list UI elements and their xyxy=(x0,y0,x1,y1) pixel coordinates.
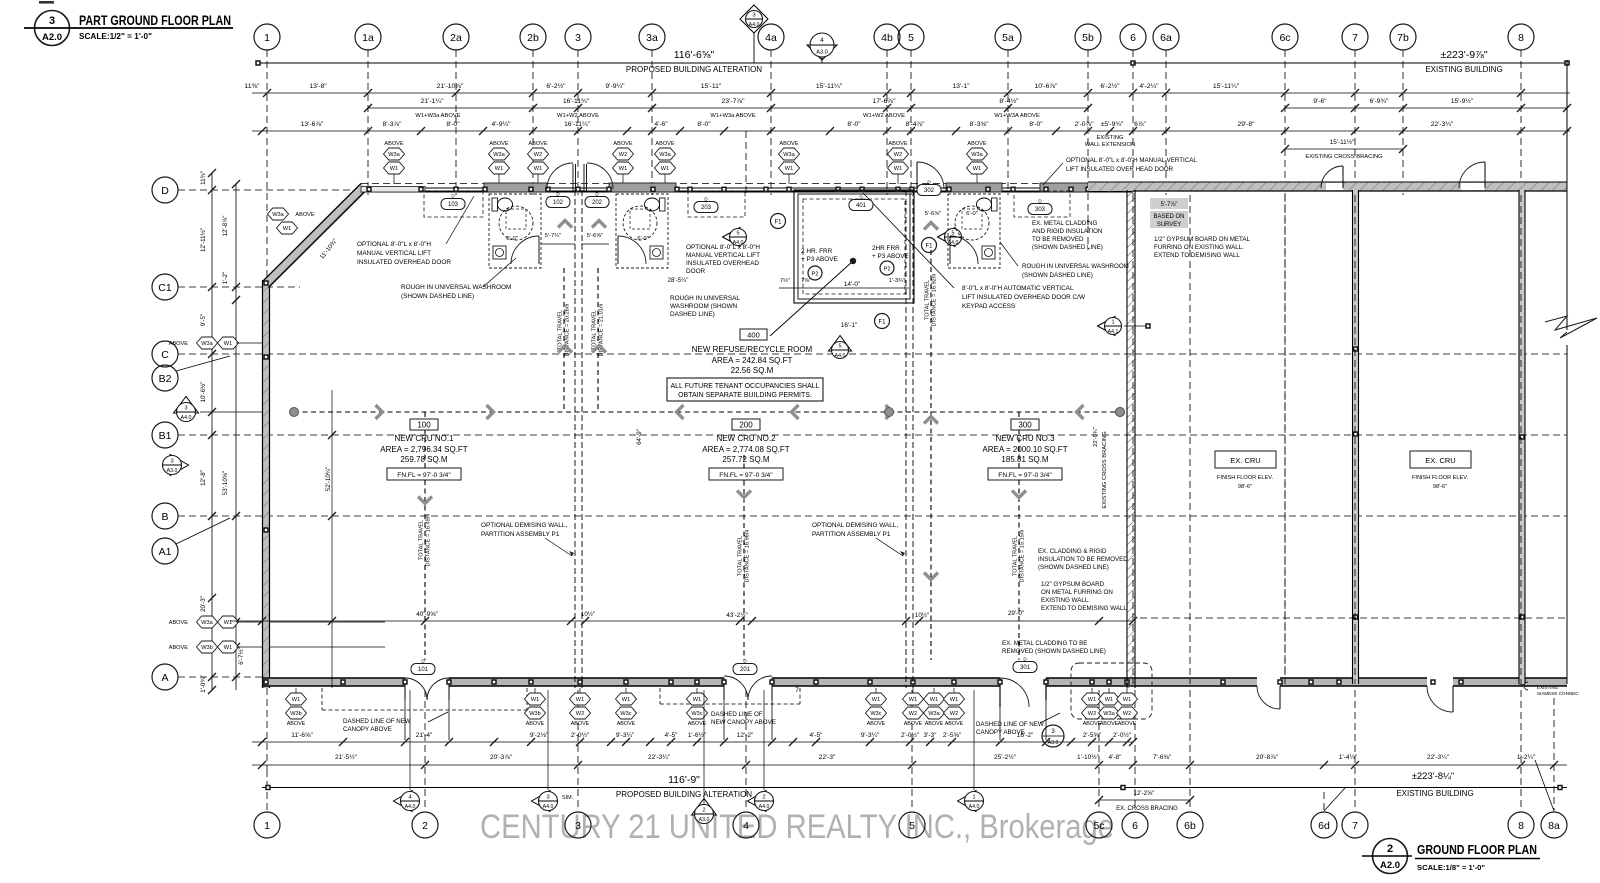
top wall window unit xyxy=(946,183,1002,192)
svg-text:FURRING ON EXISTING WALL.: FURRING ON EXISTING WALL. xyxy=(1154,244,1244,251)
svg-text:12'-2⅝": 12'-2⅝" xyxy=(1134,790,1155,797)
svg-text:W3a: W3a xyxy=(659,152,671,158)
svg-text:116'-9": 116'-9" xyxy=(668,774,700,786)
mullion xyxy=(575,187,581,193)
bottom mullion xyxy=(1124,679,1130,685)
ex cru label 1 xyxy=(1215,451,1276,468)
bottom mullion xyxy=(668,679,674,685)
svg-text:A3.0: A3.0 xyxy=(167,468,178,474)
grid bubble 6 bottom xyxy=(1122,812,1148,838)
refuse room leader xyxy=(770,261,853,336)
svg-text:W1: W1 xyxy=(224,645,232,651)
top wall existing openings xyxy=(1326,183,1343,190)
svg-text:+ P3 ABOVE: + P3 ABOVE xyxy=(872,253,909,260)
svg-text:REMOVED (SHOWN DASHED LINE): REMOVED (SHOWN DASHED LINE) xyxy=(1002,648,1106,655)
svg-text:F1: F1 xyxy=(774,220,782,226)
travel line x=564 xyxy=(563,268,565,412)
svg-text:OPTIONAL 8'-0"L x 8'-0"H: OPTIONAL 8'-0"L x 8'-0"H xyxy=(357,241,431,248)
svg-text:12'-11½": 12'-11½" xyxy=(200,228,207,252)
svg-text:1/2" GYPSUM BOARD: 1/2" GYPSUM BOARD xyxy=(1041,581,1105,588)
svg-text:FN.FL = 97'-0 3/4": FN.FL = 97'-0 3/4" xyxy=(719,472,773,479)
top wall chamfer stub xyxy=(361,187,425,193)
svg-text:5: 5 xyxy=(736,231,739,237)
svg-text:AREA = 2,774.08 SQ.FT: AREA = 2,774.08 SQ.FT xyxy=(702,445,789,454)
svg-text:ABOVE: ABOVE xyxy=(1118,721,1137,727)
svg-text:EXISTING WALL.: EXISTING WALL. xyxy=(1041,597,1090,604)
svg-text:W1: W1 xyxy=(872,697,880,703)
travel chevron v xyxy=(558,346,572,353)
svg-text:3: 3 xyxy=(575,820,581,832)
svg-text:ABOVE: ABOVE xyxy=(528,141,548,147)
section marker 1/A4.1 xyxy=(1098,317,1116,336)
svg-text:7: 7 xyxy=(1352,32,1358,44)
svg-text:B: B xyxy=(161,511,168,523)
section marker 5/A4.0 a xyxy=(723,228,741,247)
svg-text:2: 2 xyxy=(702,808,705,814)
grid line 1 xyxy=(266,50,268,770)
svg-text:EXISTING CROSS BRACING: EXISTING CROSS BRACING xyxy=(1305,154,1383,160)
svg-text:4'-2¼": 4'-2¼" xyxy=(1139,83,1159,90)
svg-text:W1: W1 xyxy=(619,166,627,172)
grid line 1a xyxy=(367,50,369,195)
mullion xyxy=(650,187,656,193)
top wall window unit xyxy=(484,183,547,192)
svg-text:2'-0⅞": 2'-0⅞" xyxy=(1075,121,1095,128)
svg-text:W1: W1 xyxy=(894,166,902,172)
svg-text:29'-8": 29'-8" xyxy=(1237,121,1255,128)
svg-text:WALL EXTENSION: WALL EXTENSION xyxy=(1085,142,1135,148)
svg-text:AREA = 2,796.34 SQ.FT: AREA = 2,796.34 SQ.FT xyxy=(380,445,467,454)
mullion xyxy=(418,187,424,193)
svg-text:64'-9": 64'-9" xyxy=(636,429,643,445)
svg-text:102: 102 xyxy=(553,200,564,206)
svg-text:5: 5 xyxy=(909,820,915,832)
svg-text:W2: W2 xyxy=(1088,711,1096,717)
svg-text:W3a: W3a xyxy=(201,341,213,347)
grid bubble A left xyxy=(152,664,178,690)
svg-text:ROUGH IN UNIVERSAL WASHROOM: ROUGH IN UNIVERSAL WASHROOM xyxy=(401,284,511,291)
svg-text:8'-3⅝": 8'-3⅝" xyxy=(970,121,990,128)
svg-text:A2.0: A2.0 xyxy=(42,32,62,43)
circle marker 3/A3.0 xyxy=(1042,725,1064,747)
bottom mullion xyxy=(1043,679,1049,685)
entry door 302 swing xyxy=(916,162,918,189)
grid line C1 xyxy=(178,286,300,288)
chamfer wall xyxy=(263,184,368,288)
grid bubble 8 bottom xyxy=(1508,812,1534,838)
grid line B1 xyxy=(178,434,1567,436)
svg-text:6'-7½": 6'-7½" xyxy=(238,647,245,664)
svg-text:4'-8": 4'-8" xyxy=(1109,754,1123,761)
travel chevron xyxy=(487,405,494,419)
gray dot hatched wall xyxy=(1116,408,1125,417)
svg-text:2'-5⅝": 2'-5⅝" xyxy=(943,732,962,739)
grid line 4a xyxy=(770,50,772,195)
svg-text:NEW CANOPY ABOVE: NEW CANOPY ABOVE xyxy=(711,719,776,726)
svg-text:W1+W3a ABOVE: W1+W3a ABOVE xyxy=(710,113,755,119)
washroom unit2 xyxy=(616,194,668,268)
svg-text:22'-0¾": 22'-0¾" xyxy=(1093,427,1099,447)
svg-text:6'-0": 6'-0" xyxy=(637,236,649,242)
svg-text:3a: 3a xyxy=(646,32,658,44)
grid line 7 bottom xyxy=(1354,690,1356,811)
svg-text:W1+W3a ABOVE: W1+W3a ABOVE xyxy=(415,113,460,119)
svg-text:SURVEY: SURVEY xyxy=(1157,222,1182,228)
svg-text:OPTIONAL 8'-0"L x 8'-0"H: OPTIONAL 8'-0"L x 8'-0"H xyxy=(686,244,760,251)
svg-text:13'-1": 13'-1" xyxy=(952,83,970,90)
title block part ground floor plan xyxy=(35,11,70,46)
grid bubble 4b top xyxy=(874,24,900,50)
svg-text:52'-10¼": 52'-10¼" xyxy=(325,467,332,491)
svg-text:W3a: W3a xyxy=(388,152,400,158)
travel chevron xyxy=(792,405,799,419)
svg-text:B1: B1 xyxy=(159,430,172,442)
travel line x=744 xyxy=(743,455,745,660)
overhead door rough opening xyxy=(1014,191,1070,217)
grid bubble B left xyxy=(152,503,178,529)
bottom mullion xyxy=(997,679,1003,685)
mullion xyxy=(763,187,769,193)
leader 6d xyxy=(1324,788,1345,811)
travel chevron v xyxy=(592,346,606,353)
dimension row 2 xyxy=(252,92,1570,94)
dim row overall left xyxy=(258,62,1133,64)
mullion xyxy=(946,187,952,193)
svg-text:21'-10⅞": 21'-10⅞" xyxy=(437,83,464,90)
svg-text:401: 401 xyxy=(856,203,867,209)
svg-text:ABOVE: ABOVE xyxy=(904,721,923,727)
svg-text:9'-9¼": 9'-9¼" xyxy=(605,83,625,90)
svg-text:ABOVE: ABOVE xyxy=(779,141,799,147)
bottom wall xyxy=(263,678,1567,686)
svg-text:A4.0: A4.0 xyxy=(181,415,192,421)
svg-text:7'-6⅝": 7'-6⅝" xyxy=(1153,754,1172,761)
svg-text:5: 5 xyxy=(838,344,841,350)
svg-text:W1: W1 xyxy=(950,697,958,703)
dashed vertical 6c interior xyxy=(1284,195,1286,684)
grid line 8a bottom xyxy=(1553,698,1555,811)
svg-text:ABOVE: ABOVE xyxy=(925,721,944,727)
svg-text:W1: W1 xyxy=(576,697,584,703)
washroom unit3 xyxy=(948,194,1000,268)
svg-text:ON METAL FURRING ON: ON METAL FURRING ON xyxy=(1041,589,1113,596)
bottom dimension row B xyxy=(252,764,1567,766)
svg-text:NEW REFUSE/RECYCLE ROOM: NEW REFUSE/RECYCLE ROOM xyxy=(692,345,813,354)
bottom wall door opening xyxy=(724,677,772,687)
svg-text:3: 3 xyxy=(184,406,187,412)
svg-text:W3a: W3a xyxy=(783,152,795,158)
svg-text:21'-5½": 21'-5½" xyxy=(335,753,358,761)
svg-text:4: 4 xyxy=(820,37,824,44)
svg-text:101: 101 xyxy=(418,667,429,673)
mullion xyxy=(674,187,680,193)
travel chevron xyxy=(886,405,893,419)
svg-text:EX. CRU: EX. CRU xyxy=(1425,456,1455,465)
svg-text:12'-8": 12'-8" xyxy=(200,470,207,486)
svg-text:A4.0: A4.0 xyxy=(405,804,416,810)
svg-text:15'-9½": 15'-9½" xyxy=(1451,97,1474,105)
grid line 2a xyxy=(455,50,457,195)
svg-text:W1+W2 ABOVE: W1+W2 ABOVE xyxy=(557,113,599,119)
door jamb extension xyxy=(723,688,725,740)
grid bubble D left xyxy=(152,177,178,203)
leader B2 xyxy=(176,356,230,371)
svg-text:ROUGH IN UNIVERSAL WASHROOM: ROUGH IN UNIVERSAL WASHROOM xyxy=(1022,263,1129,270)
double door xyxy=(404,678,406,700)
optional demising wall xyxy=(574,190,576,688)
svg-text:INSULATION TO BE REMOVED: INSULATION TO BE REMOVED xyxy=(1038,556,1128,563)
section marker 3/A4.0 left xyxy=(174,397,199,414)
svg-text:100: 100 xyxy=(417,421,431,430)
svg-text:4'-6": 4'-6" xyxy=(654,121,668,128)
svg-text:W3a: W3a xyxy=(971,152,983,158)
svg-text:4: 4 xyxy=(743,820,749,832)
existing wall grid7 xyxy=(1353,190,1359,684)
svg-text:DASHED LINE OF NEW: DASHED LINE OF NEW xyxy=(343,718,411,725)
travel line x=598 xyxy=(597,268,599,412)
mullion xyxy=(985,187,991,193)
mullion xyxy=(895,187,901,193)
svg-text:W1: W1 xyxy=(785,166,793,172)
svg-text:9'-3¼": 9'-3¼" xyxy=(861,732,880,739)
svg-text:11⅜": 11⅜" xyxy=(200,171,207,185)
svg-text:PART GROUND FLOOR PLAN: PART GROUND FLOOR PLAN xyxy=(79,12,231,28)
svg-text:12'-8⅞": 12'-8⅞" xyxy=(222,216,229,237)
svg-text:W3a: W3a xyxy=(272,212,284,218)
svg-text:SIAMESE CONNEC: SIAMESE CONNEC xyxy=(1537,691,1579,696)
svg-text:W3c: W3c xyxy=(620,711,631,717)
svg-text:FN.FL = 97'-0 3/4": FN.FL = 97'-0 3/4" xyxy=(998,472,1052,479)
svg-text:EX. METAL CLADDING TO BE: EX. METAL CLADDING TO BE xyxy=(1002,640,1087,647)
svg-text:W3b: W3b xyxy=(290,711,302,717)
svg-text:9'-6": 9'-6" xyxy=(1313,98,1327,105)
future tenant note box xyxy=(667,378,823,401)
svg-text:20'-3": 20'-3" xyxy=(200,596,207,612)
svg-text:DISTANCE = 16.92m: DISTANCE = 16.92m xyxy=(932,273,938,326)
svg-text:3: 3 xyxy=(49,15,55,27)
grid dash through wall 6 xyxy=(1132,195,1134,684)
svg-text:5a: 5a xyxy=(1002,32,1014,44)
existing door swing xyxy=(1452,686,1454,712)
existing hatched wall grid6 xyxy=(1127,190,1135,688)
bottom mullion xyxy=(721,679,727,685)
bottom mullion xyxy=(1308,679,1314,685)
grid line 8 xyxy=(1520,50,1522,188)
svg-text:29'-0": 29'-0" xyxy=(1008,610,1024,617)
grid bubble B1 left xyxy=(152,422,178,448)
svg-text:8'-0"L x 8'-0"H AUTOMATIC VERT: 8'-0"L x 8'-0"H AUTOMATIC VERTICAL xyxy=(962,285,1074,292)
svg-text:A: A xyxy=(161,672,168,684)
svg-text:A4.1: A4.1 xyxy=(1108,329,1119,335)
travel chevron xyxy=(677,405,684,419)
svg-text:±223'-8¼": ±223'-8¼" xyxy=(1412,771,1455,782)
svg-text:6d: 6d xyxy=(1318,820,1330,832)
svg-text:PARTITION ASSEMBLY P1: PARTITION ASSEMBLY P1 xyxy=(812,531,891,538)
svg-text:W3b: W3b xyxy=(201,645,213,651)
svg-text:2 HR. FRR: 2 HR. FRR xyxy=(801,248,833,255)
svg-text:3: 3 xyxy=(546,795,549,801)
svg-text:16'-1": 16'-1" xyxy=(841,322,857,329)
bottom mullion xyxy=(694,679,700,685)
svg-text:AREA = 2000.10 SQ.FT: AREA = 2000.10 SQ.FT xyxy=(982,445,1067,454)
svg-text:6: 6 xyxy=(1132,820,1138,832)
svg-text:300: 300 xyxy=(1018,421,1032,430)
svg-text:1'-0¾": 1'-0¾" xyxy=(200,675,207,692)
svg-text:185.81 SQ.M: 185.81 SQ.M xyxy=(1001,455,1048,464)
svg-text:A4.0: A4.0 xyxy=(543,804,554,810)
svg-text:A2.0: A2.0 xyxy=(1380,860,1400,871)
bottom mullion xyxy=(1458,679,1464,685)
svg-text:(SHOWN DASHED LINE): (SHOWN DASHED LINE) xyxy=(401,293,474,300)
svg-text:14'-0": 14'-0" xyxy=(844,281,860,288)
grid bubble 2a top xyxy=(443,24,469,50)
window tag stack bottom x=1109 xyxy=(1108,688,1110,694)
svg-text:DASHED LINE): DASHED LINE) xyxy=(670,311,715,318)
travel chevron v xyxy=(924,223,938,230)
top wall window unit xyxy=(609,183,676,192)
grid line 6d bottom xyxy=(1323,792,1325,811)
mullion xyxy=(606,187,612,193)
washroom unit1 xyxy=(489,194,541,268)
grid bubble 7 top xyxy=(1342,24,1368,50)
window tag stack bottom x=697 xyxy=(696,688,698,694)
svg-text:6c: 6c xyxy=(1279,32,1290,44)
mullion xyxy=(786,187,792,193)
grid line 3 xyxy=(577,50,579,195)
watermark century 21 xyxy=(450,799,1130,849)
leader A1 xyxy=(176,518,230,544)
dimension row 3 xyxy=(368,107,1088,109)
grid bubble 4a top xyxy=(758,24,784,50)
svg-text:A3.0: A3.0 xyxy=(816,50,828,56)
refuse room label xyxy=(740,329,767,340)
svg-text:SIM.: SIM. xyxy=(562,795,573,801)
title block ground floor plan xyxy=(1373,839,1408,874)
svg-text:5'-6⅝": 5'-6⅝" xyxy=(925,211,941,217)
bottom mullion xyxy=(910,679,916,685)
bottom cross bracing dim xyxy=(1099,799,1190,801)
bottom mullion xyxy=(813,679,819,685)
svg-text:P2: P2 xyxy=(883,267,890,273)
svg-text:PROPOSED BUILDING ALTERATION: PROPOSED BUILDING ALTERATION xyxy=(626,65,762,74)
mullion xyxy=(545,187,551,193)
svg-text:2'-0½": 2'-0½" xyxy=(571,731,590,739)
svg-text:21'-1¼": 21'-1¼" xyxy=(421,98,445,105)
dimension row 3 right xyxy=(1285,107,1567,109)
section marker 5/A4.0 c xyxy=(829,336,852,352)
svg-text:4'-9¼": 4'-9¼" xyxy=(492,121,512,128)
svg-text:W1: W1 xyxy=(973,166,981,172)
svg-text:11⅜": 11⅜" xyxy=(244,83,260,90)
svg-text:TOTAL TRAVEL: TOTAL TRAVEL xyxy=(1013,536,1019,576)
grid bubble 5c bottom xyxy=(1086,812,1112,838)
bottom wall door opening xyxy=(1257,677,1280,687)
dim row overall right xyxy=(1133,62,1567,64)
bottom mullion xyxy=(577,679,583,685)
svg-text:C1: C1 xyxy=(158,282,172,294)
svg-text:13'-8": 13'-8" xyxy=(309,83,327,90)
svg-text:W3b: W3b xyxy=(529,711,541,717)
svg-text:C: C xyxy=(161,349,169,361)
svg-text:53'-10⅝": 53'-10⅝" xyxy=(222,471,229,495)
mullion xyxy=(528,187,534,193)
travel chevron v xyxy=(924,573,938,580)
refuse room walls xyxy=(794,190,914,303)
grid bubble 5b top xyxy=(1075,24,1101,50)
bottom mullion xyxy=(402,679,408,685)
svg-text:W1: W1 xyxy=(390,166,398,172)
existing wall extension gray xyxy=(1088,182,1133,191)
svg-text:W1: W1 xyxy=(1105,697,1113,703)
grid line 4 bottom xyxy=(745,690,747,811)
tag P2 b xyxy=(880,261,894,275)
svg-text:2: 2 xyxy=(422,820,428,832)
bottom mullion xyxy=(528,679,534,685)
svg-text:DASHED LINE OF: DASHED LINE OF xyxy=(711,711,763,718)
section marker 3/A4.0 bottom xyxy=(532,791,551,812)
mullion xyxy=(366,187,372,193)
grid bubble 5 top xyxy=(898,24,924,50)
svg-text:ABOVE: ABOVE xyxy=(1100,721,1119,727)
svg-text:W3c: W3c xyxy=(870,711,881,717)
bottom mullion xyxy=(340,679,346,685)
svg-text:1: 1 xyxy=(264,820,270,832)
svg-text:±223'-9⅞": ±223'-9⅞" xyxy=(1440,49,1487,61)
svg-text:DASHED LINE OF NEW: DASHED LINE OF NEW xyxy=(976,721,1044,728)
svg-text:15'-11½": 15'-11½" xyxy=(1330,138,1355,146)
travel line x=425 xyxy=(424,412,426,660)
svg-text:98'-6": 98'-6" xyxy=(1238,484,1252,490)
svg-text:22'-3¼": 22'-3¼" xyxy=(1427,754,1450,761)
svg-text:OPTIONAL 8'-0"L x 8'-0"H MANUA: OPTIONAL 8'-0"L x 8'-0"H MANUAL VERTICAL xyxy=(1066,157,1197,164)
dashed vertical 6b xyxy=(1190,194,1567,196)
window tag stack bottom x=913 xyxy=(912,688,914,694)
svg-text:10½": 10½" xyxy=(581,611,595,618)
section marker 2/A3.0 bottom xyxy=(692,799,717,816)
bottom wall door opening xyxy=(1427,677,1453,687)
svg-text:6⅞": 6⅞" xyxy=(1134,121,1146,128)
existing wall grid8 xyxy=(1519,190,1525,684)
svg-text:A3.0: A3.0 xyxy=(699,817,710,823)
travel chevron v xyxy=(1012,491,1026,498)
svg-text:W2: W2 xyxy=(619,152,627,158)
svg-text:A4.0: A4.0 xyxy=(749,22,760,28)
svg-text:6a: 6a xyxy=(1160,32,1172,44)
svg-text:5'-7⅞": 5'-7⅞" xyxy=(1161,202,1178,208)
tag F1 a xyxy=(771,214,786,229)
svg-text:8: 8 xyxy=(1518,32,1524,44)
svg-text:B2: B2 xyxy=(159,373,172,385)
grid line 4 top xyxy=(745,131,747,195)
svg-text:AND RIGID INSULATION: AND RIGID INSULATION xyxy=(1032,228,1102,235)
vestibule door frame xyxy=(572,164,574,191)
svg-text:43'-2½": 43'-2½" xyxy=(726,611,748,619)
svg-text:9'-2⅛": 9'-2⅛" xyxy=(530,732,549,739)
left dim chain 1 xyxy=(211,173,213,690)
svg-text:EXISTING: EXISTING xyxy=(1537,685,1559,690)
travel line x=1019 xyxy=(1018,412,1020,660)
grid bubble 8a bottom xyxy=(1541,812,1567,838)
travel node dot xyxy=(885,408,894,417)
svg-text:2a: 2a xyxy=(450,32,462,44)
left dim chain 2 xyxy=(235,184,237,690)
entry doors top xyxy=(547,163,573,189)
svg-text:ABOVE: ABOVE xyxy=(967,141,987,147)
svg-text:6'-9¾": 6'-9¾" xyxy=(1370,98,1389,105)
grid line C xyxy=(178,353,1567,355)
grid line D across plan xyxy=(361,183,1560,185)
svg-text:15'-11¼": 15'-11¼" xyxy=(816,83,843,90)
